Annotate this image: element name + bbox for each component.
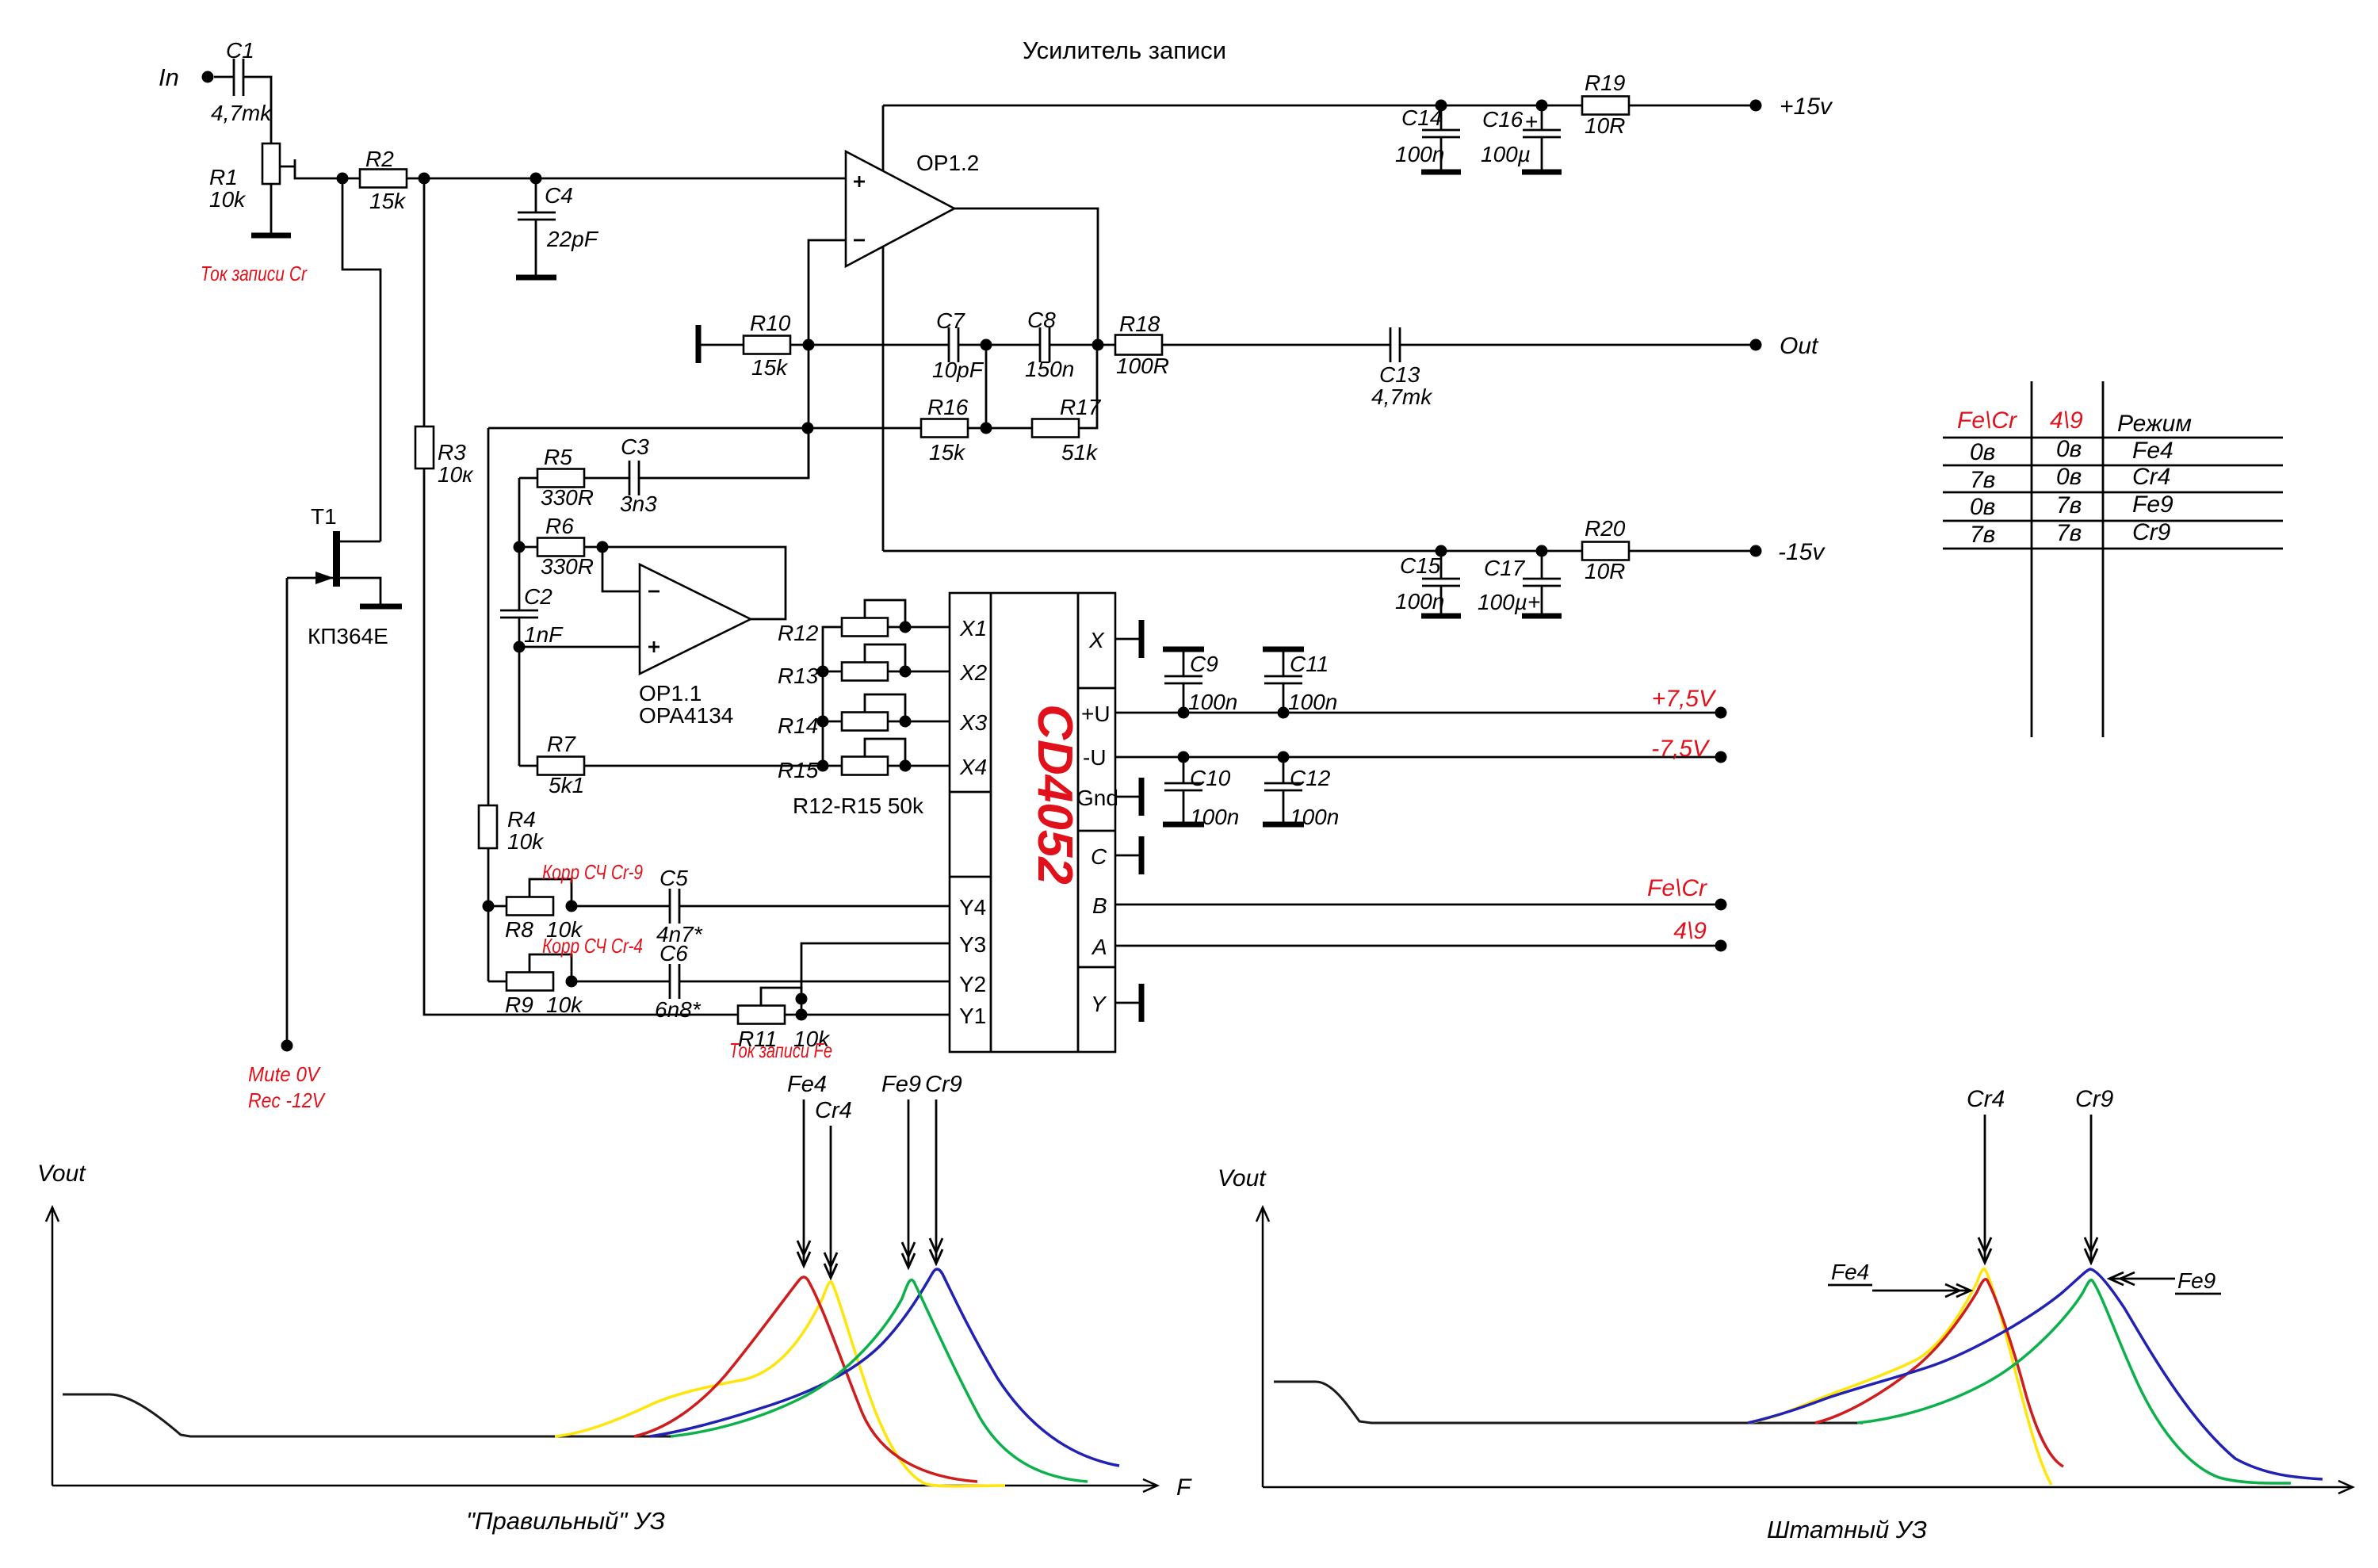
ground (1522, 170, 1562, 175)
svg-text:7в: 7в (2056, 520, 2082, 546)
svg-text:C16: C16 (1482, 107, 1524, 132)
node Out (1750, 339, 1762, 351)
svg-text:100µ: 100µ (1481, 142, 1531, 166)
wire output (954, 208, 1098, 345)
svg-text:B: B (1092, 893, 1107, 918)
svg-text:150n: 150n (1025, 357, 1074, 381)
node + input tap (514, 641, 526, 653)
svg-text:R15: R15 (778, 758, 819, 782)
svg-text:R9: R9 (505, 992, 533, 1017)
svg-text:15k: 15k (751, 355, 789, 380)
svg-text:0в: 0в (1970, 439, 1995, 465)
capacitor C1 (233, 59, 235, 96)
wire A to 4\9 (1115, 945, 1721, 947)
svg-text:C6: C6 (659, 941, 688, 966)
svg-text:R4: R4 (507, 807, 536, 832)
wire (584, 477, 629, 480)
wire gate down to Mute (286, 578, 289, 1046)
svg-text:X3: X3 (959, 710, 988, 735)
svg-text:C13: C13 (1379, 362, 1420, 387)
svg-text:C15: C15 (1400, 553, 1441, 578)
svg-text:3n3: 3n3 (620, 491, 657, 516)
svg-text:CD4052: CD4052 (1027, 704, 1082, 884)
terminal bar X (1139, 620, 1145, 658)
capacitor C8 (1039, 327, 1042, 362)
svg-text:C8: C8 (1027, 308, 1056, 332)
svg-text:F: F (1176, 1474, 1192, 1501)
terminal bar Gnd (1139, 778, 1145, 816)
svg-text:4,7mk: 4,7mk (1371, 384, 1433, 409)
graph1 axes (46, 1207, 1157, 1492)
wire Y4 row (572, 905, 670, 908)
svg-text:4\9: 4\9 (2050, 407, 2083, 434)
svg-text:Fe\Cr: Fe\Cr (1647, 875, 1707, 901)
wire trimmer left bus (823, 627, 842, 766)
svg-text:330R: 330R (541, 554, 594, 579)
svg-text:OPA4134: OPA4134 (639, 703, 733, 728)
svg-text:10k: 10k (546, 992, 583, 1017)
capacitor C11 (1278, 707, 1290, 719)
ground (1421, 170, 1461, 175)
svg-text:15k: 15k (929, 440, 966, 465)
wire node1 down-jog to T1 drain (342, 178, 380, 541)
terminal bar C (1139, 836, 1145, 874)
node (337, 173, 349, 185)
svg-text:+7,5V: +7,5V (1652, 686, 1717, 712)
op-amp U OP1.1 (640, 564, 751, 674)
svg-text:0в: 0в (2056, 464, 2082, 490)
svg-text:Режим: Режим (2117, 411, 2192, 437)
wire Y1 row (785, 1014, 950, 1016)
wire R16-row left corner down to R4 (487, 428, 490, 805)
node (514, 541, 526, 553)
svg-text:Усилитель записи: Усилитель записи (1023, 36, 1226, 64)
svg-text:КП364Е: КП364Е (308, 624, 388, 648)
node 4\9 (1715, 940, 1727, 952)
resistor R2 (342, 178, 360, 180)
graph2 axes (1256, 1207, 2353, 1493)
ground (1522, 614, 1562, 619)
graph1 curve green (671, 1280, 1088, 1482)
wire (968, 427, 1032, 430)
arrow Fe9 (908, 1100, 910, 1268)
wire to Y2 pin (679, 981, 950, 983)
svg-text:R18: R18 (1119, 312, 1160, 336)
trimmer R9 (507, 973, 553, 991)
resistor R6 (519, 546, 537, 549)
svg-text:C1: C1 (226, 38, 254, 63)
wire (1049, 344, 1115, 346)
resistor R5 (537, 469, 584, 488)
svg-text:R13: R13 (778, 664, 819, 688)
svg-text:C4: C4 (545, 183, 573, 208)
svg-text:Rec -12V: Rec -12V (248, 1088, 326, 1112)
svg-text:4,7mk: 4,7mk (211, 101, 273, 125)
svg-text:330R: 330R (541, 485, 594, 510)
resistor R1 (potentiometer) (262, 143, 280, 184)
svg-text:0в: 0в (1970, 494, 1995, 520)
wire left net vertical (518, 478, 521, 610)
resistor R20 (1582, 542, 1629, 560)
ground (270, 184, 273, 235)
svg-text:10k: 10k (507, 829, 545, 854)
svg-text:1nF: 1nF (524, 622, 564, 647)
wire (214, 76, 234, 78)
svg-text:Gnd: Gnd (1076, 786, 1118, 810)
graph2 curve red (1815, 1279, 2063, 1467)
svg-text:R2: R2 (365, 147, 394, 171)
svg-text:Vout: Vout (1218, 1165, 1267, 1191)
svg-text:7в: 7в (2056, 492, 2082, 518)
svg-text:R12-R15 50k: R12-R15 50k (793, 794, 924, 818)
wire R5 row (519, 477, 537, 480)
wire Y2 row (572, 981, 670, 983)
trimmer R8 (488, 905, 507, 908)
svg-text:R14: R14 (778, 713, 818, 738)
capacitor C14 (1440, 105, 1443, 130)
wire below C2 (518, 618, 521, 766)
svg-text:Cr4: Cr4 (2132, 464, 2170, 490)
node (796, 1009, 808, 1021)
svg-text:Ток записи Cr: Ток записи Cr (201, 262, 308, 285)
arrow Fe4 (803, 1100, 805, 1266)
svg-text:Mute 0V: Mute 0V (248, 1062, 321, 1086)
capacitor C13 (1390, 327, 1392, 362)
wire R17 right up to output node (1079, 345, 1097, 428)
graph2 curve yellow (1748, 1269, 2051, 1485)
svg-text:+U: +U (1081, 702, 1111, 726)
node (1436, 100, 1447, 112)
wire Y3 link (801, 943, 950, 1015)
svg-text:22pF: 22pF (546, 227, 599, 251)
svg-text:R1: R1 (209, 165, 238, 189)
svg-text:C3: C3 (621, 434, 649, 459)
svg-text:Y4: Y4 (959, 895, 986, 920)
resistor R4 (479, 805, 497, 848)
svg-text:C2: C2 (524, 584, 552, 609)
wire out row (790, 344, 949, 346)
svg-text:Корр СЧ Cr-4: Корр СЧ Cr-4 (542, 934, 643, 958)
arrow Fe4 (1872, 1290, 1971, 1292)
node (981, 339, 992, 351)
svg-text:Cr9: Cr9 (2132, 519, 2171, 545)
capacitor C5 (669, 889, 671, 924)
resistor R18 (1115, 335, 1162, 355)
svg-text:C10: C10 (1190, 766, 1231, 790)
svg-text:C: C (1091, 844, 1107, 869)
resistor R3 (415, 426, 434, 468)
graph1 curve blue (650, 1269, 1119, 1466)
trimmer R11 (738, 1006, 785, 1024)
arrow Fe9 (2109, 1278, 2175, 1280)
capacitor C17 (electrolytic) (1541, 551, 1543, 579)
svg-text:T1: T1 (311, 504, 337, 529)
arrow Cr4 (830, 1126, 832, 1278)
svg-text:51k: 51k (1061, 440, 1099, 465)
svg-text:100R: 100R (1116, 354, 1169, 378)
svg-text:C5: C5 (659, 866, 688, 890)
svg-text:R20: R20 (1585, 516, 1626, 541)
graph1 curve black (63, 1394, 674, 1436)
svg-text:C17: C17 (1484, 556, 1526, 580)
wire C7-C8 junction to R16-R17 junction (985, 345, 988, 428)
svg-text:Y3: Y3 (959, 932, 986, 957)
ground (1421, 614, 1461, 619)
svg-text:Fe\Cr: Fe\Cr (1957, 407, 2017, 434)
wire - input (809, 240, 846, 478)
svg-text:0в: 0в (2056, 436, 2082, 462)
resistor R7 (519, 765, 537, 767)
svg-text:X2: X2 (959, 660, 988, 685)
svg-text:15k: 15k (369, 189, 407, 213)
svg-text:OP1.2: OP1.2 (916, 151, 979, 175)
svg-text:Cr9: Cr9 (2075, 1086, 2114, 1112)
svg-text:C9: C9 (1190, 652, 1218, 676)
svg-text:100n: 100n (1288, 690, 1337, 714)
graph1 curve yellow (555, 1282, 1005, 1486)
wire R9 branch corner (488, 981, 507, 983)
svg-text:C14: C14 (1401, 105, 1442, 130)
svg-text:Fe9: Fe9 (2177, 1268, 2216, 1293)
svg-text:"Правильный" УЗ: "Правильный" УЗ (466, 1507, 665, 1535)
svg-text:Vout: Vout (37, 1161, 86, 1187)
wire (1400, 344, 1756, 346)
svg-text:R3: R3 (438, 440, 466, 465)
svg-text:Fe4: Fe4 (787, 1072, 827, 1097)
svg-text:Fe4: Fe4 (2132, 438, 2173, 464)
wire B to Fe\Cr (1115, 904, 1721, 906)
svg-text:X: X (1088, 628, 1105, 652)
svg-text:Y2: Y2 (959, 972, 986, 996)
svg-text:10R: 10R (1585, 113, 1625, 138)
svg-text:Cr4: Cr4 (1967, 1086, 2005, 1112)
graph2 curve black (1274, 1382, 1863, 1423)
wire (243, 77, 271, 143)
graph1 curve red (634, 1277, 977, 1482)
svg-text:+15v: +15v (1780, 94, 1833, 120)
svg-text:In: In (159, 63, 179, 91)
wire -U rail (1115, 756, 1721, 759)
wire R6 right / feedback loop (584, 546, 602, 549)
wire (958, 344, 1040, 346)
wire C3 right up to R16 node (639, 428, 809, 478)
node (1536, 100, 1548, 112)
node -15v (1750, 545, 1762, 557)
svg-text:100n: 100n (1395, 589, 1444, 614)
svg-text:Y: Y (1091, 992, 1107, 1016)
wire R7 row to X4 (584, 765, 950, 767)
svg-text:R7: R7 (547, 732, 576, 756)
svg-text:Fe4: Fe4 (1831, 1260, 1869, 1284)
resistor R19 (1582, 97, 1629, 115)
node (803, 339, 815, 351)
capacitor C16 (electrolytic) (1541, 105, 1543, 130)
svg-text:R5: R5 (544, 445, 572, 469)
svg-text:Y1: Y1 (959, 1004, 986, 1028)
wire (1162, 344, 1390, 346)
wire R4 down (487, 848, 490, 981)
svg-text:C7: C7 (936, 308, 965, 333)
terminal bar Y (1139, 984, 1145, 1022)
node -7,5V (1715, 751, 1727, 763)
svg-text:Cr9: Cr9 (925, 1072, 962, 1097)
node Fe\Cr (1715, 899, 1727, 911)
svg-text:OP1.1: OP1.1 (639, 681, 702, 706)
svg-text:R6: R6 (545, 514, 574, 538)
wire +15v rail (883, 105, 1756, 107)
resistor R16 (921, 419, 968, 438)
node (1536, 545, 1548, 557)
svg-text:X4: X4 (959, 755, 987, 779)
svg-text:100n: 100n (1188, 690, 1237, 714)
node In (202, 71, 214, 83)
graph2 curve blue (1748, 1269, 2323, 1479)
resistor R17 (1032, 419, 1079, 438)
svg-text:4\9: 4\9 (1673, 918, 1707, 944)
wire to Y4 pin (679, 905, 950, 908)
svg-text:7в: 7в (1970, 467, 1995, 493)
svg-text:100µ+: 100µ+ (1478, 590, 1540, 614)
svg-text:100n: 100n (1190, 805, 1239, 829)
svg-text:10к: 10к (438, 462, 474, 487)
svg-text:Ток записи Fe: Ток записи Fe (729, 1038, 832, 1062)
table mode (2031, 381, 2033, 737)
svg-text:10pF: 10pF (932, 358, 984, 382)
svg-text:5k1: 5k1 (549, 773, 584, 797)
wire (701, 344, 744, 346)
node Mute (281, 1040, 293, 1052)
wire R16 row (488, 427, 921, 430)
svg-text:6n8*: 6n8* (655, 997, 702, 1022)
arrow Cr4 (1984, 1115, 1986, 1263)
wire to op-amp + input (407, 178, 846, 180)
svg-text:10k: 10k (209, 187, 247, 212)
svg-text:100n: 100n (1395, 142, 1444, 166)
node (419, 173, 430, 185)
capacitor C3 (629, 461, 631, 495)
op-amp U OP1.2 (846, 151, 954, 266)
svg-text:C11: C11 (1290, 652, 1329, 676)
capacitor C15 (1440, 551, 1443, 579)
wire -15v rail (883, 550, 1756, 553)
arrow Cr9 (935, 1100, 938, 1264)
svg-text:R17: R17 (1060, 395, 1102, 419)
svg-text:Корр СЧ Cr-9: Корр СЧ Cr-9 (542, 860, 643, 884)
svg-text:Fe9: Fe9 (2132, 491, 2173, 518)
wire op-amp supply vertical (882, 105, 885, 551)
wire + input OP1.1 (519, 646, 640, 648)
svg-text:R16: R16 (927, 395, 969, 419)
node (1092, 339, 1104, 351)
capacitor C2 (500, 610, 538, 612)
node +7,5V (1715, 707, 1727, 719)
node (981, 423, 992, 434)
wire +U rail (1115, 712, 1721, 714)
svg-text:A: A (1091, 935, 1107, 959)
capacitor C4 (535, 178, 537, 212)
node +15v (1750, 100, 1762, 112)
svg-text:+: + (1525, 109, 1538, 134)
wire R2-right down (R3 branch) (423, 178, 426, 426)
svg-text:Out: Out (1780, 333, 1819, 359)
svg-text:100n: 100n (1290, 805, 1339, 829)
capacitor C6 (669, 964, 671, 999)
svg-text:-U: -U (1083, 745, 1107, 770)
wire - input OP1.1 (602, 547, 640, 591)
capacitor C10 (1178, 751, 1190, 763)
svg-text:C12: C12 (1290, 766, 1331, 790)
resistor R10 (744, 336, 790, 354)
node R8 left (483, 901, 495, 912)
svg-text:R19: R19 (1585, 71, 1625, 95)
svg-text:R8: R8 (505, 917, 533, 942)
svg-text:10R: 10R (1585, 559, 1625, 583)
svg-text:-15v: -15v (1778, 539, 1826, 565)
svg-text:X1: X1 (959, 616, 987, 641)
ground (516, 275, 556, 281)
svg-text:Штатный УЗ: Штатный УЗ (1767, 1516, 1927, 1543)
node C4 tap (530, 173, 542, 185)
svg-text:7в: 7в (1970, 522, 1995, 548)
node (1436, 545, 1447, 557)
capacitor C12 (1278, 751, 1290, 763)
node (802, 423, 814, 434)
ground T1 source (360, 604, 402, 610)
terminal bar (R10 left) (696, 325, 702, 363)
svg-text:Cr4: Cr4 (815, 1098, 852, 1123)
graph2 curve green (1857, 1280, 2291, 1483)
wire R3 down to Y1 row (424, 468, 738, 1015)
svg-text:R10: R10 (750, 311, 791, 335)
IC U CD4052 body (950, 593, 1115, 1052)
svg-text:-7,5V: -7,5V (1651, 736, 1711, 762)
capacitor C7 (948, 327, 950, 362)
svg-text:R12: R12 (778, 621, 819, 645)
svg-text:Fe9: Fe9 (881, 1072, 921, 1097)
arrow Cr9 (2090, 1115, 2093, 1263)
capacitor C9 (1178, 707, 1190, 719)
